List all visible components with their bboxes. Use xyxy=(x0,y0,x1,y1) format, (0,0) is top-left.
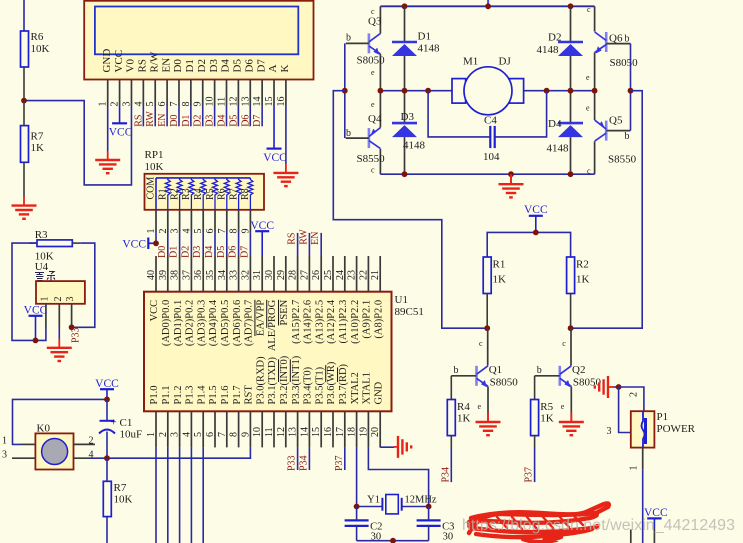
svg-text:EN: EN xyxy=(310,231,321,244)
svg-text:VCC: VCC xyxy=(524,204,548,216)
resistor R7 10K pulldown xyxy=(103,458,132,543)
wire R1 bottom xyxy=(486,294,488,329)
svg-text:11: 11 xyxy=(264,427,275,437)
svg-text:b: b xyxy=(346,128,351,139)
svg-text:10K: 10K xyxy=(31,43,50,55)
svg-text:9: 9 xyxy=(240,432,251,437)
wire VCC rail driver xyxy=(487,232,570,257)
svg-text:4148: 4148 xyxy=(547,143,570,155)
svg-text:3: 3 xyxy=(607,426,612,437)
wire XTAL2 to crystal xyxy=(356,447,358,506)
svg-text:22: 22 xyxy=(358,270,369,280)
svg-text:EN: EN xyxy=(157,113,168,126)
svg-text:8: 8 xyxy=(229,432,240,437)
svg-text:4148: 4148 xyxy=(403,140,426,152)
svg-text:P33: P33 xyxy=(287,455,298,471)
svg-text:(AD1)P0.1: (AD1)P0.1 xyxy=(173,300,184,346)
svg-text:1K: 1K xyxy=(540,413,554,425)
P1 pin2 number xyxy=(629,392,640,397)
svg-text:RST: RST xyxy=(244,385,255,405)
transistor Q3 S8050 xyxy=(346,6,385,90)
U1 top pin stubs 40-21 xyxy=(156,256,380,292)
svg-text:c: c xyxy=(587,5,591,14)
power VCC at reset xyxy=(95,378,119,400)
svg-text:c: c xyxy=(562,339,566,348)
junction Q2 collector node xyxy=(568,325,574,331)
junction crystal left xyxy=(354,504,360,510)
svg-text:P1.7: P1.7 xyxy=(232,386,243,405)
wire crystal bottom xyxy=(357,540,429,542)
transistor Q5 S8550 xyxy=(586,91,637,176)
junction VCC reset xyxy=(104,397,110,403)
U1 bottom pin numbers xyxy=(146,427,381,437)
svg-text:COM: COM xyxy=(145,177,156,200)
svg-text:1K: 1K xyxy=(576,274,590,286)
ground at LCD pin1 xyxy=(95,151,120,173)
net labels D0-D7 on P0 bus xyxy=(157,246,251,258)
transistor Q6 S8050 xyxy=(586,5,638,91)
junction top rail VCC xyxy=(485,3,491,9)
wire LCD pin16 xyxy=(285,106,287,164)
svg-text:S8050: S8050 xyxy=(357,55,386,67)
svg-text:4148: 4148 xyxy=(418,43,441,55)
junction rail C4 left xyxy=(425,88,431,94)
svg-text:D7: D7 xyxy=(239,246,250,258)
svg-text:104: 104 xyxy=(483,151,500,163)
capacitor C1 10uF xyxy=(99,399,142,458)
svg-text:16: 16 xyxy=(323,427,334,437)
svg-text:(A13)P2.5: (A13)P2.5 xyxy=(314,300,325,344)
svg-text:D1: D1 xyxy=(181,115,192,127)
junction U4 VCC xyxy=(33,338,39,344)
svg-text:32: 32 xyxy=(240,270,251,280)
wire stub bottom right b xyxy=(630,530,632,543)
svg-text:D3: D3 xyxy=(401,111,415,123)
svg-text:ALE/PROG: ALE/PROG xyxy=(267,299,278,351)
wire VCC feed top xyxy=(487,0,489,6)
svg-text:D7: D7 xyxy=(255,59,267,73)
svg-text:Q6: Q6 xyxy=(609,33,623,45)
resistor R6 10K xyxy=(21,31,50,67)
svg-text:e: e xyxy=(561,402,565,411)
svg-text:C1: C1 xyxy=(120,417,133,429)
svg-text:13: 13 xyxy=(240,96,251,106)
wire Q3 Q4 base tie xyxy=(344,43,346,138)
svg-text:P1.3: P1.3 xyxy=(185,386,196,405)
power VCC at RP1 COM xyxy=(122,232,156,251)
svg-text:U1: U1 xyxy=(395,294,408,306)
svg-text:RP1: RP1 xyxy=(145,149,164,161)
power VCC at U1 pin31 xyxy=(250,220,274,256)
svg-text:P1.0: P1.0 xyxy=(149,386,160,405)
junction Q1 collector node xyxy=(484,325,490,331)
junction right base node xyxy=(628,88,634,94)
wire U4 pin2 xyxy=(58,327,60,339)
svg-text:EA/VPP: EA/VPP xyxy=(255,300,266,336)
svg-text:2: 2 xyxy=(158,432,169,437)
svg-text:P1.1: P1.1 xyxy=(161,386,172,405)
svg-text:1K: 1K xyxy=(31,142,45,154)
ground at U4 pin2 xyxy=(47,339,72,361)
K0 pin numbers xyxy=(2,436,94,461)
capacitor C2 30 xyxy=(345,507,383,543)
svg-text:P33: P33 xyxy=(71,327,82,343)
svg-text:P3.5(T1): P3.5(T1) xyxy=(314,366,325,404)
svg-text:D7: D7 xyxy=(252,115,263,127)
svg-text:b: b xyxy=(346,33,351,44)
svg-text:D2: D2 xyxy=(548,32,561,44)
svg-text:c: c xyxy=(371,7,375,16)
wire R6 to junction xyxy=(23,67,25,101)
wires RP1 to P0 bus xyxy=(168,232,251,256)
RP1 pin stubs xyxy=(156,210,250,232)
svg-text:21: 21 xyxy=(370,270,381,280)
junction P1 node xyxy=(616,384,622,390)
U1 bottom pin stubs 1-20 xyxy=(156,411,380,447)
svg-text:P3.7(RD): P3.7(RD) xyxy=(338,363,349,404)
svg-text:b: b xyxy=(454,365,459,376)
svg-text:D0: D0 xyxy=(172,59,184,73)
svg-text:R6: R6 xyxy=(217,188,228,200)
svg-text:13: 13 xyxy=(288,427,299,437)
svg-text:D5: D5 xyxy=(232,59,244,73)
junction rail C4 right xyxy=(544,88,550,94)
svg-text:RS: RS xyxy=(133,115,144,127)
svg-text:(A10)P2.2: (A10)P2.2 xyxy=(350,300,361,344)
wire P1 pin1 down xyxy=(642,448,644,543)
power VCC at LCD pin2 xyxy=(109,106,133,139)
wire RST net xyxy=(107,447,250,458)
svg-text:D3: D3 xyxy=(192,246,203,258)
svg-text:12: 12 xyxy=(228,97,239,107)
svg-text:30: 30 xyxy=(264,270,275,280)
red scribble mark xyxy=(469,503,609,542)
svg-text:C4: C4 xyxy=(484,115,497,127)
svg-text:e: e xyxy=(586,73,590,82)
svg-text:D6: D6 xyxy=(228,246,239,258)
svg-text:P3.2(INT0): P3.2(INT0) xyxy=(279,355,290,404)
capacitor C4 104 xyxy=(428,91,546,163)
svg-text:(AD3)P0.3: (AD3)P0.3 xyxy=(196,300,207,346)
wire Q5 Q6 base tie xyxy=(630,44,632,131)
svg-text:10K: 10K xyxy=(114,494,133,506)
svg-text:6: 6 xyxy=(205,432,216,437)
svg-text:11: 11 xyxy=(217,97,228,107)
svg-text:10: 10 xyxy=(252,427,263,437)
svg-text:4: 4 xyxy=(181,432,192,437)
svg-text:M1: M1 xyxy=(463,56,478,68)
svg-text:4: 4 xyxy=(133,102,144,107)
wire right base to Q2 xyxy=(571,91,643,329)
capacitor C3 30 xyxy=(417,507,455,543)
svg-text:P1.4: P1.4 xyxy=(196,385,207,405)
LCD pin stubs 1-16 xyxy=(108,80,286,107)
svg-text:89C51: 89C51 xyxy=(395,306,424,318)
junction VCC driver xyxy=(533,230,539,236)
svg-text:S8550: S8550 xyxy=(608,154,637,166)
svg-text:VCC: VCC xyxy=(263,152,287,164)
junction top rail D2 xyxy=(568,3,574,9)
junction left base node xyxy=(342,88,348,94)
svg-text:D4: D4 xyxy=(217,115,228,127)
diode D3 4148 xyxy=(392,91,426,175)
svg-text:17: 17 xyxy=(335,427,346,437)
svg-text:P37: P37 xyxy=(334,455,345,471)
svg-text:R1: R1 xyxy=(493,259,506,271)
svg-text:R4: R4 xyxy=(193,188,204,200)
wires LCD data/control stubs xyxy=(143,106,262,126)
transistor Q1 S8050 xyxy=(451,328,518,412)
svg-text:37: 37 xyxy=(181,270,192,280)
svg-text:1: 1 xyxy=(39,297,50,302)
svg-text:27: 27 xyxy=(299,270,310,280)
svg-text:R7: R7 xyxy=(31,131,44,143)
svg-text:24: 24 xyxy=(335,270,346,280)
watermark text xyxy=(462,517,735,534)
wire V0 contrast net xyxy=(24,101,131,185)
junction crystal bottom xyxy=(390,538,396,543)
svg-text:D0: D0 xyxy=(169,115,180,127)
svg-text:VCC: VCC xyxy=(113,50,125,73)
svg-text:15: 15 xyxy=(311,427,322,437)
motor M1 DJ xyxy=(452,56,524,115)
svg-text:31: 31 xyxy=(252,270,263,280)
svg-text:D5: D5 xyxy=(216,246,227,258)
microcontroller U1 89C51 xyxy=(144,292,424,412)
svg-text:D3: D3 xyxy=(205,115,216,127)
svg-text:VCC: VCC xyxy=(149,300,160,322)
svg-text:(AD2)P0.2: (AD2)P0.2 xyxy=(185,300,196,346)
junction rail D2D4 xyxy=(568,88,574,94)
svg-text:D4: D4 xyxy=(204,246,215,258)
junction rail Q5Q6 xyxy=(592,88,598,94)
svg-text:16: 16 xyxy=(276,97,287,107)
svg-text:(A9)P2.1: (A9)P2.1 xyxy=(362,300,373,339)
svg-text:c: c xyxy=(479,339,483,348)
transistor Q4 S8550 xyxy=(346,91,385,175)
wire H-bridge top rail xyxy=(380,5,594,7)
svg-text:P3.1(TXD): P3.1(TXD) xyxy=(267,356,278,404)
svg-text:1: 1 xyxy=(146,432,157,437)
power VCC at LCD pin15 xyxy=(263,106,287,164)
wire R2 bottom xyxy=(570,294,572,329)
svg-text:R3: R3 xyxy=(35,229,48,241)
junction rail D1D3 xyxy=(402,88,408,94)
wire XTAL1 to crystal xyxy=(368,447,428,506)
svg-text:K: K xyxy=(279,65,291,73)
K0 pin stubs xyxy=(12,444,107,458)
wire H-bridge bottom rail xyxy=(380,173,594,175)
wire R7 to ground xyxy=(23,162,25,197)
svg-text:7: 7 xyxy=(217,432,228,437)
resistor R2 1K xyxy=(567,257,590,294)
svg-text:GND: GND xyxy=(373,381,384,404)
svg-text:14: 14 xyxy=(299,427,310,437)
LCD pin name labels xyxy=(101,49,291,73)
junction bottom rail center xyxy=(508,171,514,177)
svg-text:P37: P37 xyxy=(524,467,535,483)
power VCC at U4 xyxy=(24,305,48,341)
wire R3 left loop xyxy=(12,243,46,340)
svg-text:Q1: Q1 xyxy=(489,364,502,376)
svg-text:20: 20 xyxy=(370,427,381,437)
diode D4 4148 xyxy=(547,91,584,175)
svg-text:P1.6: P1.6 xyxy=(220,386,231,405)
svg-text:2: 2 xyxy=(110,102,121,107)
ground sideways at P1 xyxy=(595,376,614,398)
svg-text:S8050: S8050 xyxy=(490,377,519,389)
svg-text:(A8)P2.0: (A8)P2.0 xyxy=(373,300,384,339)
svg-text:R8: R8 xyxy=(240,188,251,200)
svg-text:D6: D6 xyxy=(243,59,255,73)
svg-text:XTAL2: XTAL2 xyxy=(350,372,361,404)
svg-text:P34: P34 xyxy=(440,467,451,483)
svg-text:D2: D2 xyxy=(180,246,191,258)
wires P33 P34 P37 stubs xyxy=(298,447,345,470)
svg-text:PSEN: PSEN xyxy=(279,299,290,325)
resistor R7 1K xyxy=(21,126,45,163)
svg-text:VCC: VCC xyxy=(122,239,146,251)
svg-text:R3: R3 xyxy=(181,188,192,200)
crystal Y1 12MHz xyxy=(357,495,437,514)
svg-text:35: 35 xyxy=(205,270,216,280)
svg-text:(AD4)P0.4: (AD4)P0.4 xyxy=(208,299,219,346)
svg-text:10: 10 xyxy=(205,97,216,107)
svg-text:D3: D3 xyxy=(208,59,220,73)
net label P37 at R5 xyxy=(524,467,535,483)
svg-text:5: 5 xyxy=(145,102,156,107)
hall sensor U4 xyxy=(36,281,85,304)
wire to R6 top xyxy=(23,0,25,31)
wire P1 pin3 xyxy=(619,387,631,433)
wire junction to R7 xyxy=(23,101,25,126)
svg-text:D4: D4 xyxy=(220,59,232,73)
RP1 element labels COM R1-R8 xyxy=(145,177,251,200)
svg-text:7: 7 xyxy=(169,102,180,107)
diode D1 4148 xyxy=(392,6,440,90)
svg-text:D6: D6 xyxy=(240,115,251,127)
svg-text:P1: P1 xyxy=(657,411,669,423)
svg-text:RW: RW xyxy=(298,229,309,245)
RP1 pin numbers 1-9 xyxy=(146,229,251,234)
resistor R4 1K xyxy=(447,376,470,482)
net labels RS RW EN D0-D7 xyxy=(133,111,263,127)
svg-text:12MHz: 12MHz xyxy=(405,495,437,506)
wire left base to Q1 xyxy=(333,91,487,329)
svg-text:3: 3 xyxy=(2,449,7,460)
svg-text:R5: R5 xyxy=(540,401,553,413)
svg-text:4: 4 xyxy=(89,449,94,460)
svg-text:15: 15 xyxy=(264,97,275,107)
svg-text:VCC: VCC xyxy=(250,220,274,232)
U1 top pin names xyxy=(149,299,384,351)
svg-text:2: 2 xyxy=(89,436,94,447)
power VCC bottom right xyxy=(644,507,668,529)
svg-text:P3.4(T0): P3.4(T0) xyxy=(303,366,314,404)
net labels P33 P34 P37 xyxy=(287,455,345,471)
svg-text:U4: U4 xyxy=(35,261,49,273)
svg-text:V0: V0 xyxy=(125,59,137,73)
junction RP1 COM xyxy=(153,240,159,246)
svg-text:P3.3(INT1): P3.3(INT1) xyxy=(291,355,302,404)
svg-text:23: 23 xyxy=(347,270,358,280)
svg-text:Q2: Q2 xyxy=(572,364,585,376)
label HuoEr hall text xyxy=(35,272,55,281)
svg-text:1K: 1K xyxy=(493,274,507,286)
svg-text:(AD7)P0.7: (AD7)P0.7 xyxy=(244,300,255,346)
svg-text:D5: D5 xyxy=(228,115,239,127)
wire stub bottom right a xyxy=(653,529,655,543)
svg-text:R/W: R/W xyxy=(148,51,160,72)
svg-text:9: 9 xyxy=(193,102,204,107)
svg-text:33: 33 xyxy=(229,270,240,280)
svg-text:3: 3 xyxy=(170,432,181,437)
wires RS RW EN to U1 xyxy=(298,233,322,256)
svg-text:38: 38 xyxy=(170,270,181,280)
svg-text:D2: D2 xyxy=(196,59,208,72)
svg-text:Q5: Q5 xyxy=(609,115,623,127)
U1 bottom pin names xyxy=(149,355,384,404)
svg-text:S8050: S8050 xyxy=(610,57,639,69)
net label P34 at R4 xyxy=(440,467,451,483)
svg-text:R4: R4 xyxy=(457,401,470,413)
diode D2 4148 xyxy=(537,6,584,90)
wire U1 GND pin20 xyxy=(380,446,394,448)
resistor network RP1 10K xyxy=(145,149,265,210)
junction U4 pin3 xyxy=(69,324,75,330)
junction rail Q3Q4 xyxy=(378,88,384,94)
svg-text:10uF: 10uF xyxy=(120,429,143,441)
svg-text:b: b xyxy=(625,34,630,45)
svg-text:19: 19 xyxy=(358,427,369,437)
svg-text:34: 34 xyxy=(217,270,228,280)
wire P1 pin2 xyxy=(619,387,644,411)
svg-text:28: 28 xyxy=(288,270,299,280)
svg-text:D2: D2 xyxy=(193,115,204,127)
svg-text:https://blog.csdn.net/weixin_4: https://blog.csdn.net/weixin_44212493 xyxy=(462,517,735,534)
U4 pin stubs xyxy=(46,304,72,327)
svg-text:RS: RS xyxy=(137,59,149,72)
svg-text:D1: D1 xyxy=(169,246,180,258)
svg-text:25: 25 xyxy=(323,270,334,280)
wire R3 right loop xyxy=(72,243,95,327)
svg-text:2: 2 xyxy=(629,392,640,397)
svg-text:12: 12 xyxy=(276,427,287,437)
svg-text:1: 1 xyxy=(629,466,640,471)
ground H-bridge xyxy=(499,174,524,197)
svg-text:1K: 1K xyxy=(457,413,471,425)
svg-text:5: 5 xyxy=(193,432,204,437)
svg-text:RS: RS xyxy=(287,233,298,245)
svg-text:2: 2 xyxy=(53,297,64,302)
svg-text:R2: R2 xyxy=(576,259,589,271)
svg-text:(A15)P2.7: (A15)P2.7 xyxy=(291,300,302,344)
svg-text:40: 40 xyxy=(146,270,157,280)
svg-text:R5: R5 xyxy=(205,188,216,200)
ground below R7 xyxy=(12,197,37,219)
wire K0 pin1 to VCC node xyxy=(13,399,108,444)
svg-text:XTAL1: XTAL1 xyxy=(362,372,373,404)
svg-text:R7: R7 xyxy=(228,188,239,200)
P1 pin1 number xyxy=(629,466,640,471)
resistor R3 10K xyxy=(29,229,80,263)
wire ground to P1 node xyxy=(614,386,619,388)
svg-text:e: e xyxy=(586,104,590,113)
svg-text:+: + xyxy=(111,416,117,428)
svg-text:Y1: Y1 xyxy=(367,495,380,506)
transistor Q2 S8050 xyxy=(535,328,602,412)
svg-text:VCC: VCC xyxy=(109,127,133,139)
